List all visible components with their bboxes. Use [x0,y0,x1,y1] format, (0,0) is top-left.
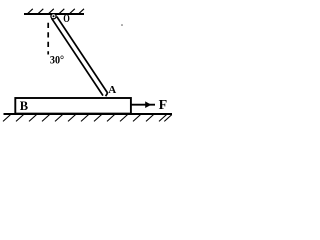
svg-text:30°: 30° [50,53,64,67]
pivot center dot [53,15,55,17]
ceiling line [24,13,84,15]
dashed vertical reference line [47,23,49,55]
arrowhead of F [145,101,151,108]
svg-text:A: A [108,84,116,96]
svg-text:O: O [63,11,70,25]
ground line [4,113,173,115]
svg-text:B: B [20,99,28,113]
force line to F [132,104,156,106]
scan speck [121,24,123,26]
rod tip at A [106,93,108,96]
ground hatch marks [3,115,172,122]
svg-text:F: F [159,98,168,113]
block B outline [15,98,131,114]
rod left line [52,18,103,95]
rod right line [57,17,108,93]
ceiling hatch marks [27,9,84,14]
pivot hinge circle O [51,14,56,19]
